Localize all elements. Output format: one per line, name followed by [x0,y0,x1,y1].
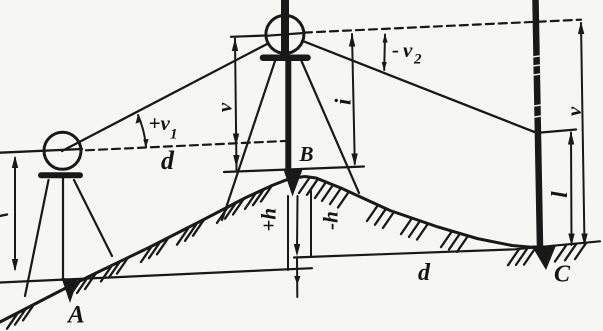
tripod right leg B [302,61,360,193]
baseline from A (line d) [0,268,312,282]
sight line B to staff C [302,41,537,133]
vertical line at B-to-C level [310,191,312,257]
svg-text:A: A [66,302,85,329]
label i (cut off at edge) [0,215,7,217]
svg-text:v: v [213,102,237,112]
svg-text:2: 2 [413,52,422,68]
dimension +h at B [287,196,289,270]
sight line A to B circle [62,44,268,152]
-h extension below [296,259,298,297]
svg-text:v: v [562,106,586,116]
hatching right slope [299,177,586,265]
theodolite circle B [266,15,304,53]
dimension v at C (outer) [581,23,585,245]
dimension i at A (left edge) [14,158,16,269]
dimension -h at B [296,196,299,251]
tripod plate B [263,54,308,61]
horizon dashed line A to B [86,141,285,150]
B plumb rod [285,61,291,172]
svg-text:d: d [161,146,175,175]
tripod plate A [41,172,80,178]
hatching left slope [7,186,272,329]
angle arrow +v1 [138,115,146,147]
tripod right leg A [74,180,112,256]
ground level line to C [294,241,600,257]
tripod left leg A [25,180,49,296]
svg-text:C: C [554,262,571,288]
svg-text:l: l [547,191,572,198]
svg-text:+v: +v [149,111,171,135]
theodolite circle A [44,132,81,169]
svg-text:1: 1 [170,127,178,143]
terrain profile [0,177,540,323]
tick at staff sight level [541,130,576,133]
tripod plumb A [62,178,64,280]
staff at C [536,0,541,247]
tick line at B ground level [224,167,364,173]
angle arrow -v2 [383,35,386,71]
svg-text:d: d [418,260,431,286]
svg-text:-: - [392,38,399,62]
svg-text:i: i [331,98,356,105]
ground point C arrow [532,246,557,271]
dashed horizon B to right [304,20,581,33]
dimension l at C (inner) [570,133,573,246]
tripod left leg B [222,61,275,220]
tick left of circle B [231,36,266,37]
B mast upper [281,0,289,56]
svg-text:+h: +h [257,208,281,232]
circle B diameter line [266,33,304,36]
svg-text:v: v [403,38,413,62]
svg-text:-h: -h [319,211,343,230]
svg-text:B: B [299,142,314,166]
dimension i at B [352,34,355,164]
ground point B arrow [284,170,303,197]
dimension v at B [235,39,237,171]
label +v1 [66,38,586,329]
ground point A arrow [62,278,79,303]
horizon line at A (solid through circle) [0,149,82,153]
